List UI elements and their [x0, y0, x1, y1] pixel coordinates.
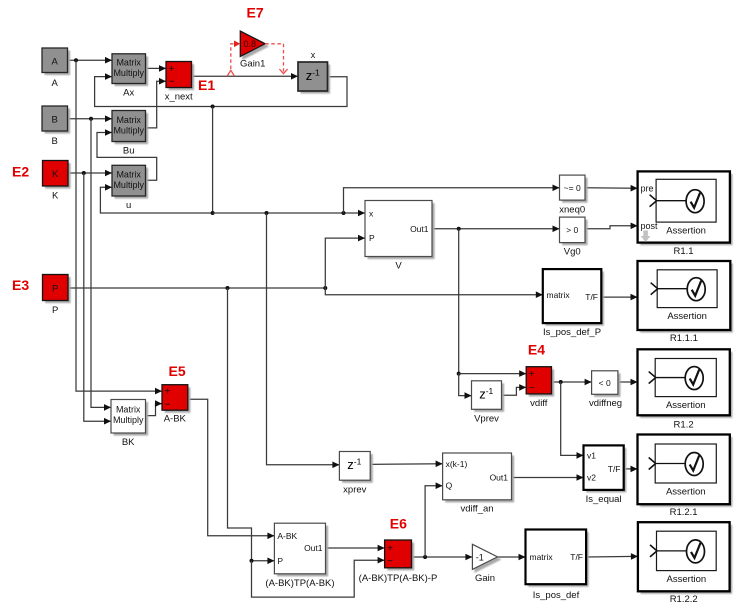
svg-text:Matrix: Matrix — [116, 170, 141, 180]
svg-text:Vg0: Vg0 — [564, 247, 581, 258]
svg-text:E2: E2 — [12, 164, 29, 180]
svg-text:pre: pre — [641, 183, 654, 193]
svg-text:(A-BK)TP(A-BK): (A-BK)TP(A-BK) — [265, 578, 334, 589]
assertion subsystem R1.1 — [640, 174, 732, 245]
svg-text:Is_equal: Is_equal — [586, 494, 622, 505]
sum block vdiff highlighted red — [529, 369, 554, 396]
wire sum output to Gain input — [412, 556, 473, 558]
svg-text:Assertion: Assertion — [667, 574, 707, 585]
svg-text:Assertion: Assertion — [667, 311, 707, 322]
svg-text:Multiply: Multiply — [113, 126, 144, 136]
svg-text:+: + — [165, 387, 171, 398]
wire Bu output to x_next minus — [146, 81, 167, 128]
wire x line up to xneq0 input — [344, 188, 560, 213]
svg-text:x(k-1): x(k-1) — [446, 459, 468, 469]
source block B — [45, 109, 71, 134]
svg-text:T/F: T/F — [585, 292, 598, 302]
source block P highlighted red — [45, 277, 71, 303]
gain block Gain minus one — [472, 544, 497, 569]
svg-text:Gain: Gain — [475, 573, 495, 584]
svg-text:+: + — [169, 64, 175, 75]
unit delay block x — [301, 65, 331, 94]
svg-text:−: − — [529, 383, 535, 394]
wire A output to Ax in1 with junction — [68, 59, 113, 61]
svg-text:Gain1: Gain1 — [240, 59, 265, 70]
svg-text:Matrix: Matrix — [116, 405, 141, 415]
wire TP Out1 to sum plus — [326, 547, 385, 549]
svg-text:+: + — [387, 544, 393, 555]
svg-text:E7: E7 — [247, 5, 264, 21]
wire P to Is_pos_def_P input — [325, 288, 543, 295]
gray sample-time arrow under post — [641, 231, 651, 243]
sum block x_next highlighted red — [169, 64, 195, 90]
wire Vg0 output to R1.1 post — [585, 226, 638, 229]
wire xneq0 output to R1.1 pre — [585, 187, 638, 190]
svg-text:K: K — [52, 169, 59, 180]
svg-text:A: A — [52, 57, 59, 68]
wire Ax output to x_next plus — [146, 67, 167, 69]
svg-text:BK: BK — [122, 437, 135, 448]
wire B output to Bu in1 with junction — [68, 118, 113, 120]
wire vdiffneg output to R1.2 — [618, 381, 638, 383]
wire Vprev output to vdiff minus — [502, 387, 527, 395]
svg-text:E5: E5 — [169, 363, 186, 379]
junction x line — [211, 211, 215, 215]
wire K down to BK in2 — [84, 173, 111, 421]
svg-text:Matrix: Matrix — [116, 58, 141, 68]
svg-text:vdiffneg: vdiffneg — [589, 398, 622, 409]
matrix multiply block u — [115, 168, 149, 199]
svg-text:E1: E1 — [198, 77, 215, 93]
wire Is_pos_def output to R1.2.2 — [586, 555, 638, 558]
svg-text:Ax: Ax — [123, 88, 134, 99]
unit delay block Vprev — [474, 383, 504, 412]
wire u output to Bu in2 — [97, 133, 157, 181]
wire sum up to vdiff_an Q input — [425, 486, 443, 557]
wire BK output to A-BK minus — [146, 404, 163, 416]
sum block A-BK highlighted red — [165, 387, 191, 413]
svg-text:P: P — [369, 233, 375, 243]
wire xprev output to vdiff_an x(k-1) input — [370, 463, 442, 466]
sum block (A-BK)TP(A-BK)-P highlighted red — [387, 543, 414, 571]
dashed red insertion annotation for Gain1 — [227, 70, 234, 76]
svg-text:R1.1: R1.1 — [673, 246, 693, 257]
svg-text:xprev: xprev — [343, 485, 366, 496]
svg-text:> 0: > 0 — [566, 225, 578, 235]
svg-text:−: − — [165, 399, 171, 410]
wire Gain output to Is_pos_def input — [498, 556, 526, 558]
svg-text:Bu: Bu — [123, 146, 135, 157]
svg-text:R1.1.1: R1.1.1 — [670, 333, 698, 344]
svg-text:< 0: < 0 — [599, 378, 611, 388]
svg-text:xneq0: xneq0 — [559, 205, 585, 216]
wire V Out1 to Vg0 input — [432, 228, 560, 230]
subsystem block V — [368, 203, 435, 259]
wire A down to A-BK plus input — [76, 60, 162, 391]
svg-text:vdiff: vdiff — [530, 398, 548, 409]
svg-text:-1: -1 — [476, 552, 484, 562]
svg-text:Multiply: Multiply — [113, 415, 144, 425]
matrix multiply block BK — [114, 402, 149, 436]
svg-text:R1.2: R1.2 — [674, 419, 694, 430]
subsystem vdiff_an — [445, 456, 514, 503]
compare block Vg0 — [562, 220, 588, 246]
svg-text:E3: E3 — [12, 277, 29, 293]
wire vdiff_an Out1 to Is_equal v2 — [512, 477, 584, 479]
svg-text:Multiply: Multiply — [113, 180, 144, 190]
wire P output line — [68, 287, 325, 289]
wire B down to BK in1 — [91, 119, 111, 408]
svg-text:Vprev: Vprev — [474, 413, 499, 424]
svg-text:−: − — [169, 77, 175, 88]
svg-text:matrix: matrix — [530, 552, 554, 562]
assertion subsystem R1.2.1 — [640, 437, 732, 507]
assertion subsystem R1.2.2 — [641, 525, 733, 594]
svg-text:Is_pos_def: Is_pos_def — [533, 590, 580, 601]
unit delay block xprev — [342, 454, 373, 483]
svg-text:B: B — [52, 115, 58, 126]
svg-text:P: P — [52, 305, 58, 316]
wire P up to V P input — [325, 238, 365, 288]
svg-text:Out1: Out1 — [490, 473, 509, 483]
svg-text:Assertion: Assertion — [666, 487, 706, 498]
gain block Gain1 highlighted red with dashed insertion marks — [240, 31, 265, 56]
junction x feedback — [211, 105, 215, 109]
svg-text:A: A — [52, 78, 59, 89]
wire vdiff output to vdiffneg input — [552, 381, 592, 383]
svg-text:E6: E6 — [390, 516, 407, 532]
wire P around to sum minus input — [252, 560, 385, 597]
svg-text:B: B — [52, 136, 58, 147]
svg-text:Is_pos_def_P: Is_pos_def_P — [543, 327, 601, 338]
subsystem Is_pos_def_P — [545, 272, 604, 326]
wire V Out1 down to vdiff — [458, 229, 460, 374]
wire x_next output to unit delay x — [192, 75, 299, 77]
svg-text:V: V — [395, 261, 402, 272]
source block K highlighted red — [45, 163, 71, 189]
wire Is_pos_def_P output to R1.1.1 — [601, 296, 637, 298]
svg-text:v2: v2 — [587, 473, 596, 483]
wire V to vdiff plus input — [459, 373, 527, 375]
wire A-BK output to TP A-BK input — [188, 399, 275, 536]
svg-text:R1.2.1: R1.2.1 — [670, 507, 698, 518]
svg-text:R1.2.2: R1.2.2 — [670, 594, 698, 605]
svg-text:A-BK: A-BK — [164, 414, 187, 425]
svg-text:v1: v1 — [587, 450, 596, 460]
svg-text:x: x — [311, 50, 316, 60]
svg-text:P: P — [277, 556, 283, 566]
wire unit delay x feedback to Ax in2 — [95, 77, 347, 107]
subsystem Is_equal — [586, 448, 626, 493]
svg-text:Matrix: Matrix — [116, 115, 141, 125]
subsystem (A-BK)TP(A-BK) — [277, 526, 328, 577]
wire vdiff down to Is_equal v1 — [561, 382, 584, 455]
subsystem Is_pos_def — [528, 532, 589, 587]
wire x line to V x input — [213, 212, 365, 214]
matrix multiply block Ax — [115, 56, 149, 86]
svg-text:Out1: Out1 — [410, 224, 429, 234]
svg-text:A-BK: A-BK — [277, 531, 297, 541]
svg-text:vdiff_an: vdiff_an — [460, 504, 493, 515]
assertion subsystem R1.1.1 — [640, 264, 733, 333]
svg-text:~= 0: ~= 0 — [564, 183, 581, 193]
svg-text:T/F: T/F — [570, 552, 583, 562]
svg-text:x_next: x_next — [165, 92, 193, 103]
svg-text:matrix: matrix — [547, 290, 571, 300]
svg-text:u: u — [126, 200, 131, 211]
svg-text:(A-BK)TP(A-BK)-P: (A-BK)TP(A-BK)-P — [359, 573, 438, 584]
compare block xneq0 — [562, 178, 588, 203]
wire K output to u in1 with junction — [68, 172, 112, 174]
svg-text:0.8: 0.8 — [244, 39, 257, 49]
matrix multiply block Bu — [115, 113, 149, 144]
svg-text:Assertion: Assertion — [666, 226, 706, 237]
svg-text:K: K — [52, 191, 59, 202]
svg-text:P: P — [52, 284, 58, 295]
svg-text:E4: E4 — [528, 342, 545, 358]
assertion subsystem R1.2 — [640, 352, 732, 418]
svg-text:Out1: Out1 — [304, 543, 323, 553]
svg-text:Assertion: Assertion — [666, 400, 706, 411]
svg-text:−: − — [387, 556, 393, 567]
svg-text:Multiply: Multiply — [113, 68, 144, 78]
wire V down to Vprev input — [459, 374, 472, 396]
wire x line to u in2 — [100, 187, 212, 213]
svg-text:Q: Q — [446, 481, 453, 491]
svg-text:T/F: T/F — [608, 464, 621, 474]
svg-text:+: + — [529, 369, 535, 380]
wire P down to TP P input — [228, 288, 275, 561]
wire x line down to xprev input — [267, 213, 340, 465]
wire Is_equal output to R1.2.1 — [624, 468, 638, 470]
compare block vdiffneg — [594, 373, 620, 397]
svg-text:post: post — [641, 221, 659, 231]
source block A — [45, 51, 71, 76]
wire x feedback down to x line — [212, 107, 214, 214]
